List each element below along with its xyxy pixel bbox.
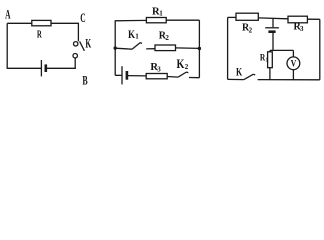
svg-text:2: 2 (165, 34, 169, 42)
svg-text:K: K (85, 36, 91, 50)
resistor R3 (288, 16, 307, 23)
resistor R3 (146, 74, 167, 79)
svg-text:1: 1 (135, 33, 139, 41)
svg-text:B: B (82, 72, 88, 87)
wire (198, 20, 200, 77)
svg-text:C: C (80, 10, 85, 25)
switch K (73, 41, 84, 58)
svg-text:K: K (236, 65, 243, 79)
wire (176, 47, 200, 50)
voltmeter V (287, 57, 300, 70)
junction (114, 46, 117, 49)
svg-text:K: K (177, 57, 185, 71)
switch K (244, 74, 255, 79)
svg-text:A: A (5, 6, 11, 21)
resistor R2 (155, 45, 176, 51)
wire (74, 58, 76, 69)
wire (6, 23, 8, 68)
wire (51, 22, 78, 24)
wire (307, 18, 319, 20)
wire (270, 49, 294, 51)
resistor R2 (236, 13, 258, 20)
wire (7, 67, 42, 69)
wire (115, 74, 122, 76)
wire (114, 21, 116, 76)
wire (227, 17, 229, 79)
wire (46, 67, 76, 69)
wire (269, 50, 271, 51)
svg-text:1: 1 (265, 57, 268, 64)
wire (77, 23, 79, 42)
resistor R1 (268, 52, 273, 68)
switch K1 (132, 43, 142, 50)
wire (272, 33, 274, 51)
wire (115, 48, 132, 49)
resistor R1 (146, 18, 166, 23)
battery (122, 66, 127, 84)
battery (41, 60, 45, 76)
wire (292, 50, 294, 57)
wire (258, 17, 288, 20)
svg-text:3: 3 (157, 65, 161, 73)
wire (269, 68, 271, 80)
wire (272, 18, 274, 27)
resistor R (32, 20, 51, 25)
wire (228, 16, 236, 18)
junction (198, 47, 201, 50)
wire (167, 76, 178, 79)
battery (265, 28, 279, 32)
wire (127, 75, 146, 77)
switch K2 (178, 72, 188, 77)
wire (319, 19, 321, 80)
svg-text:3: 3 (300, 25, 304, 33)
wire (258, 79, 320, 81)
svg-text:1: 1 (159, 10, 163, 18)
wire (189, 77, 199, 79)
wire (292, 70, 294, 80)
svg-text:V: V (291, 59, 297, 69)
wire (166, 19, 199, 21)
wire (146, 48, 155, 50)
svg-text:R: R (37, 29, 43, 41)
svg-text:2: 2 (185, 63, 189, 71)
svg-text:2: 2 (249, 26, 253, 34)
wire (7, 22, 32, 24)
wire (228, 78, 244, 80)
wire (115, 19, 147, 21)
